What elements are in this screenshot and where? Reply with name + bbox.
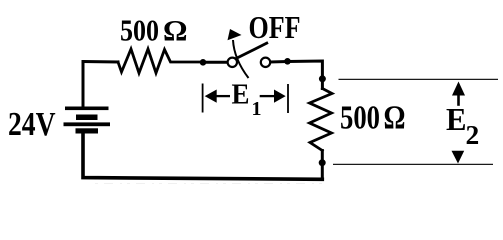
svg-text:E: E — [232, 80, 250, 111]
svg-text:500: 500 — [340, 100, 380, 137]
svg-text:Ω: Ω — [384, 100, 406, 137]
svg-text:2: 2 — [466, 119, 480, 150]
svg-text:E: E — [446, 101, 467, 137]
svg-text:500: 500 — [120, 13, 159, 48]
svg-text:OFF: OFF — [249, 9, 301, 45]
svg-text:1: 1 — [252, 98, 262, 120]
svg-text:Ω: Ω — [163, 15, 188, 48]
svg-text:24V: 24V — [8, 106, 56, 143]
